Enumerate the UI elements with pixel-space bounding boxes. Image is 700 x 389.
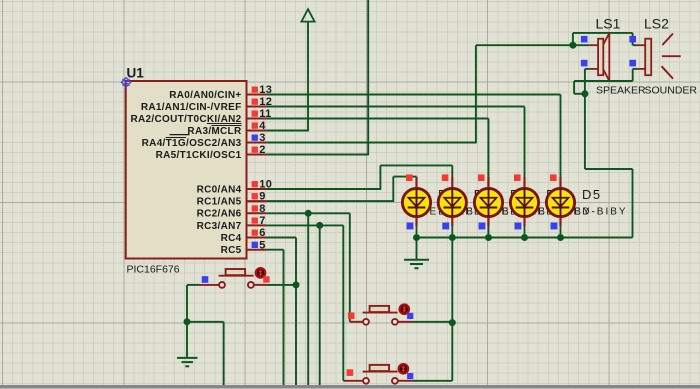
value label LED-BIBY of D3 — [494, 207, 556, 218]
pin 11 state indicator square — [252, 111, 258, 117]
node rail junction at D3 — [485, 234, 492, 241]
red square button 3 — [347, 369, 354, 376]
svg-text:LS1: LS1 — [596, 16, 621, 32]
pin 9 stub of U1 — [247, 200, 267, 202]
node rail junction at D2 — [449, 234, 456, 241]
svg-text:5: 5 — [259, 239, 265, 251]
wire button 3 right terminal up to button 2 junction — [398, 323, 452, 381]
push button 2 — [363, 306, 398, 325]
value label SPEAKER — [596, 85, 646, 97]
svg-text:RA3/MCLR: RA3/MCLR — [187, 126, 242, 137]
svg-text:8: 8 — [259, 203, 265, 215]
blue state square below D1 — [407, 223, 414, 230]
push button 3 — [363, 365, 398, 384]
wire pin11 RA2 to LED D3 — [266, 119, 488, 178]
pin 3 state indicator square — [252, 135, 258, 141]
wire LS1 bottom terminal to junction — [585, 69, 589, 94]
pin name RA1/AN1/CIN-/VREF — [141, 102, 242, 113]
svg-text:SPEAKER: SPEAKER — [596, 85, 646, 97]
blue state square below D5 — [551, 223, 558, 230]
svg-text:RC5: RC5 — [221, 245, 242, 256]
pin number 10 — [259, 179, 272, 191]
pin name RA4/T1G/OSC2/AN3 with overline T1G — [142, 138, 242, 149]
blue state square below D3 — [479, 223, 486, 230]
svg-text:RA4/T1G/OSC2/AN3: RA4/T1G/OSC2/AN3 — [142, 138, 242, 149]
value label SOUNDER — [645, 85, 698, 97]
pin name RA3/MCLR with overline MCLR — [170, 126, 242, 137]
pin 5 state indicator square — [252, 242, 258, 248]
wire pin7 RC3 to button 3 — [266, 225, 343, 380]
svg-text:9: 9 — [259, 191, 265, 203]
pin 9 state indicator square — [252, 193, 258, 199]
node speaker bottom junction — [581, 90, 588, 97]
blue square LS2 top — [629, 36, 636, 43]
node button 1 left junction — [184, 318, 191, 325]
pin 10 state indicator square — [252, 181, 258, 187]
pin name RA5/T1CKI/OSC1 — [156, 150, 242, 161]
svg-text:RC0/AN4: RC0/AN4 — [197, 184, 242, 195]
label D4 — [546, 187, 566, 202]
pin 5 stub of U1 — [247, 249, 267, 251]
svg-text:U1: U1 — [127, 66, 145, 81]
pin 2 stub of U1 — [247, 154, 267, 156]
pin number 5 — [259, 239, 265, 251]
wire pin2 RA5 going off top edge — [266, 0, 368, 155]
push button 1 — [219, 269, 254, 288]
pin name RC1/AN5 — [197, 197, 242, 208]
pin number 11 — [259, 108, 271, 120]
svg-text:RC2/AN6: RC2/AN6 — [197, 209, 242, 220]
wire speaker top bridge LS1 to LS2 — [573, 33, 637, 45]
wire button 1 left terminal to ground net — [187, 285, 224, 386]
pin 7 state indicator square — [252, 217, 258, 223]
wire branch from pin8 junction down to bottom edge — [307, 213, 309, 385]
LED D5 — [546, 177, 574, 237]
pin number 2 — [259, 144, 265, 156]
wire speaker return staircase to rail — [585, 94, 633, 238]
wire button 2 right terminal to column — [398, 321, 452, 323]
pin 8 state indicator square — [252, 205, 258, 211]
pin name RC5 — [221, 245, 242, 256]
pin number 8 — [259, 203, 265, 215]
pin number 4 — [259, 120, 266, 132]
svg-text:RC1/AN5: RC1/AN5 — [197, 197, 242, 208]
red square button 2 — [348, 312, 355, 319]
pin name RC3/AN7 — [197, 221, 242, 232]
U1 value label PIC16F676 — [127, 263, 180, 275]
value label LED-BIBY of D2 — [458, 207, 520, 218]
blue square button 3 — [407, 373, 413, 379]
svg-text:3: 3 — [259, 132, 265, 144]
wire pin13 RA0 to LED D5 — [266, 95, 560, 178]
blue square LS1 bottom — [581, 60, 588, 67]
wire pin8 RC2 to button 2 — [266, 213, 349, 321]
pin 2 state indicator square — [252, 147, 258, 153]
label D1 — [438, 187, 458, 202]
power symbol VDD arrow — [301, 9, 314, 21]
svg-text:SOUNDER: SOUNDER — [645, 85, 698, 97]
wire button 3 left stub — [343, 380, 363, 382]
red square button 1 — [263, 276, 269, 282]
svg-text:RC3/AN7: RC3/AN7 — [197, 221, 242, 232]
U1 origin marker — [121, 78, 130, 87]
label LS1 — [596, 16, 621, 32]
label LS2 — [644, 16, 669, 32]
red state square above D3 — [478, 174, 485, 181]
pin 6 state indicator square — [252, 230, 258, 236]
node pin7 branch junction — [316, 222, 323, 229]
U1 reference label — [127, 66, 145, 81]
wire pin4 RA3 to power arrow — [266, 22, 308, 132]
pin 12 stub of U1 — [247, 106, 267, 108]
wire LED cathode rail — [417, 237, 633, 239]
pin name RA0/AN0/CIN+ — [169, 90, 241, 101]
pin 11 stub of U1 — [247, 118, 267, 120]
sounder LS2 — [637, 39, 652, 75]
wire pin3 RA4 to speakers net — [266, 45, 573, 143]
IC U1 PIC16F676 body — [126, 81, 247, 259]
label D2 — [474, 187, 494, 202]
svg-text:6: 6 — [259, 227, 265, 239]
svg-text:RA2/COUT/T0CKI/AN2: RA2/COUT/T0CKI/AN2 — [131, 114, 242, 125]
wire rail to ground stub — [416, 238, 418, 260]
pin name RC0/AN4 — [197, 184, 242, 195]
pin number 7 — [259, 215, 265, 227]
blue square LS2 bottom — [629, 60, 636, 67]
svg-text:RA1/AN1/CIN-/VREF: RA1/AN1/CIN-/VREF — [141, 102, 242, 113]
node button 1 right junction — [293, 281, 300, 288]
pin name RC2/AN6 — [197, 209, 242, 220]
wire pin10 RC0 to LED D2 — [266, 165, 452, 190]
svg-text:LS2: LS2 — [644, 16, 669, 32]
LS2 sound waves — [662, 34, 681, 79]
pin name RA2/COUT/T0CKI/AN2 with underlined AN2 — [131, 114, 242, 125]
pin 10 stub of U1 — [247, 188, 267, 190]
blue state square below D4 — [515, 223, 522, 230]
svg-text:4: 4 — [259, 120, 266, 132]
red state square above D5 — [550, 174, 557, 181]
wire rail to button column — [451, 238, 453, 323]
red state square above D2 — [442, 174, 449, 181]
LED D4 — [510, 177, 538, 237]
pin number 6 — [259, 227, 265, 239]
button 2 actuator — [400, 305, 409, 314]
node pin8 branch junction — [305, 210, 312, 217]
wire branch from pin7 junction down to bottom edge — [319, 225, 321, 385]
pin 6 stub of U1 — [247, 237, 267, 239]
pin number 3 — [259, 132, 265, 144]
svg-text:D5: D5 — [582, 187, 602, 202]
svg-text:RC4: RC4 — [221, 233, 242, 244]
node button 2 right junction — [449, 319, 456, 326]
wire LS2 bottom terminal staircase — [574, 69, 636, 94]
wire pin9 RC1 to LED D1 — [266, 177, 416, 202]
node speaker top junction — [569, 42, 576, 49]
label D3 — [510, 187, 530, 202]
speaker LS1 — [589, 33, 609, 81]
label D5 — [582, 187, 602, 202]
pin number 13 — [259, 84, 272, 96]
pin 13 stub of U1 — [247, 94, 267, 96]
svg-text:7: 7 — [259, 215, 265, 227]
button 3 actuator — [399, 364, 408, 373]
button 1 actuator — [256, 268, 265, 277]
blue square LS1 top — [581, 36, 588, 43]
node rail junction at D4 — [521, 234, 528, 241]
wire pin6 RC4 to button 1 right terminal — [266, 238, 296, 386]
svg-text:RA0/AN0/CIN+: RA0/AN0/CIN+ — [169, 90, 241, 101]
wire pin5 RC5 down to bottom edge — [266, 250, 283, 386]
value label LED-BIBY of D1 — [422, 207, 484, 218]
LED D2 — [438, 177, 466, 237]
blue square button 2 — [407, 313, 413, 319]
LED D1 — [402, 177, 430, 237]
wire pin12 RA1 to LED D4 — [266, 107, 524, 178]
pin 8 stub of U1 — [247, 212, 267, 214]
value label LED-BIBY of D4 — [530, 207, 592, 218]
svg-text:PIC16F676: PIC16F676 — [127, 263, 180, 275]
red state square above D4 — [514, 174, 521, 181]
LED D3 — [474, 177, 502, 237]
blue state square below D2 — [442, 223, 449, 230]
wire button 2 left stub — [350, 321, 363, 323]
pin number 9 — [259, 191, 265, 203]
node rail junction at D5 — [557, 234, 564, 241]
wire LS1 top terminal — [573, 44, 589, 46]
blue square button 1 — [202, 276, 209, 283]
pin 7 stub of U1 — [247, 224, 267, 226]
value label LED-BIBY of D5 — [566, 207, 628, 218]
svg-text:2: 2 — [259, 144, 265, 156]
red state square above D1 — [406, 174, 413, 181]
ground bottom left — [177, 358, 198, 366]
svg-text:RA5/T1CKI/OSC1: RA5/T1CKI/OSC1 — [156, 150, 242, 161]
pin 13 state indicator square — [252, 87, 258, 93]
pin number 12 — [259, 96, 272, 108]
ground below LED rail — [404, 260, 429, 268]
pin name RC4 — [221, 233, 242, 244]
wire button 1 right terminal to pin6 column — [254, 284, 296, 286]
pin 12 state indicator square — [252, 99, 258, 105]
pin 4 stub of U1 — [247, 130, 267, 132]
pin 4 state indicator square — [252, 123, 258, 129]
pin 3 stub of U1 — [247, 142, 267, 144]
node rail junction at D1 — [413, 234, 420, 241]
svg-text:LED-BIBY: LED-BIBY — [566, 207, 628, 218]
